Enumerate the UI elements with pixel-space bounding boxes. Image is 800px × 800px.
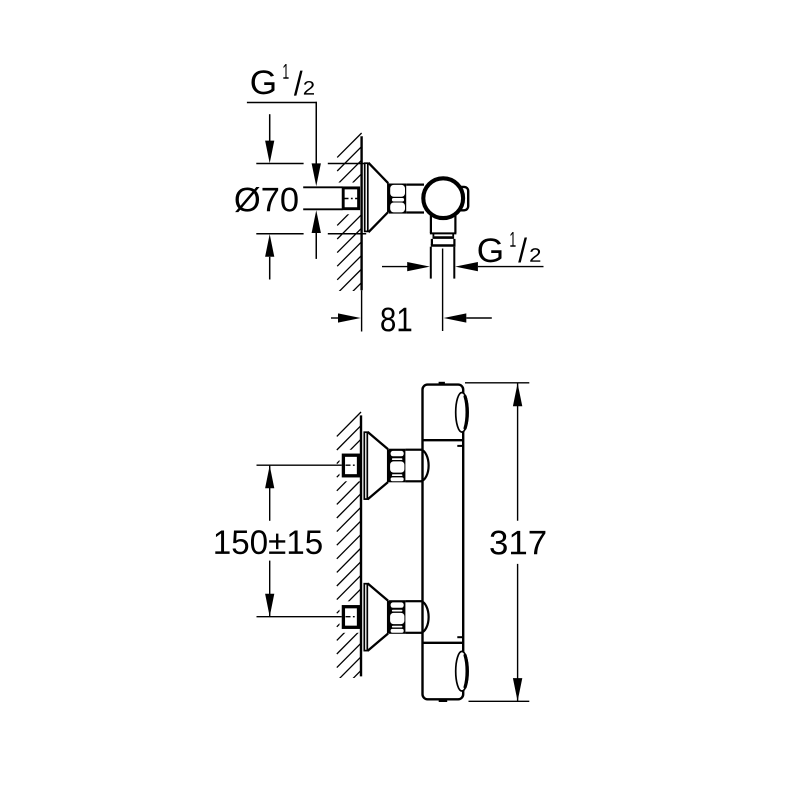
- arrowhead up to pipe bottom edge: [312, 210, 321, 233]
- centerline top inlet: [257, 464, 342, 466]
- dim Ø70 extension line bottom: [256, 233, 303, 235]
- wall line (front view): [360, 415, 362, 676]
- union dome bottom: [421, 601, 429, 633]
- union collar bottom inlet: [405, 600, 421, 602]
- cap line top: [422, 439, 463, 441]
- union dome top (pokes past bar edge): [421, 450, 429, 482]
- dim 81 wall extension: [361, 290, 363, 331]
- hex nut top inlet: [389, 449, 406, 483]
- dim 317 line + arrows: [517, 383, 519, 521]
- leader line G 1/2 down to pipe: [315, 102, 317, 164]
- dim G 1/2 (pipe) right line + arrow: [455, 262, 478, 271]
- step tick top: [457, 445, 463, 447]
- escutcheon cone (top view): [369, 163, 389, 232]
- wall hatching (top view): [337, 133, 361, 307]
- hose nut block: [431, 239, 433, 245]
- inlet assembly top (front view): [257, 432, 422, 500]
- dim 81 right arrow: [444, 313, 467, 322]
- dim 81 left arrow: [331, 317, 339, 319]
- step tick bottom: [457, 636, 463, 638]
- pipe bottom edge extension: [303, 208, 342, 210]
- label G 1/2 (pipe): [479, 232, 541, 263]
- hex nut (top view): [389, 184, 406, 214]
- cap line bottom: [422, 642, 463, 644]
- label 150±15: [215, 530, 321, 554]
- outlet cylinder below ball: [430, 213, 432, 233]
- label 317: [490, 531, 545, 555]
- escutcheon cone top inlet: [368, 432, 389, 500]
- dim 150±15 line + arrows: [269, 466, 271, 521]
- ball joint circle: [423, 178, 463, 218]
- dim G 1/2 (pipe) left line + arrow: [382, 266, 409, 268]
- escutcheon cone bottom inlet: [368, 583, 389, 651]
- dim Ø70 extension line top: [256, 163, 303, 165]
- bar bottom notch: [439, 700, 448, 702]
- escutcheon flange (top view): [365, 163, 368, 231]
- handle ellipse top: [456, 393, 468, 433]
- pipe centerline: [442, 249, 444, 332]
- escutcheon flange bottom inlet: [364, 584, 367, 651]
- dim Ø70 upper arrow: [269, 114, 271, 141]
- union collar top inlet: [405, 449, 421, 451]
- neck ring: [432, 233, 434, 236]
- square nut in wall (top view): [343, 188, 358, 209]
- outlet pipe: [430, 247, 432, 279]
- cap bump right of ball: [457, 187, 469, 210]
- escutcheon flange top inlet: [364, 432, 367, 499]
- dim Ø70 lower arrow: [265, 234, 274, 257]
- dashed centerline in square (top view): [344, 198, 359, 200]
- pipe top edge extension: [303, 186, 342, 188]
- hex nut bottom inlet: [389, 600, 406, 634]
- label Ø70: [235, 187, 298, 212]
- label underline G 1/2 (top): [247, 102, 317, 104]
- dim 317 extension bottom: [469, 700, 530, 702]
- leader tail below pipe: [315, 233, 317, 259]
- wall hatching (front view): [337, 412, 361, 695]
- dim 317 extension top: [465, 382, 529, 384]
- bar top notch: [439, 382, 445, 384]
- handle ellipse bottom: [456, 651, 468, 691]
- inlet assembly bottom (front view): [257, 583, 422, 651]
- arrowhead down to pipe top edge: [312, 163, 321, 186]
- label 81: [381, 307, 411, 331]
- collar between nut and ball: [406, 184, 424, 186]
- label G 1/2 (top): [252, 64, 315, 96]
- thermostat bar body: [423, 385, 464, 700]
- wall line (top view): [360, 136, 362, 290]
- centerline bottom inlet: [257, 616, 342, 618]
